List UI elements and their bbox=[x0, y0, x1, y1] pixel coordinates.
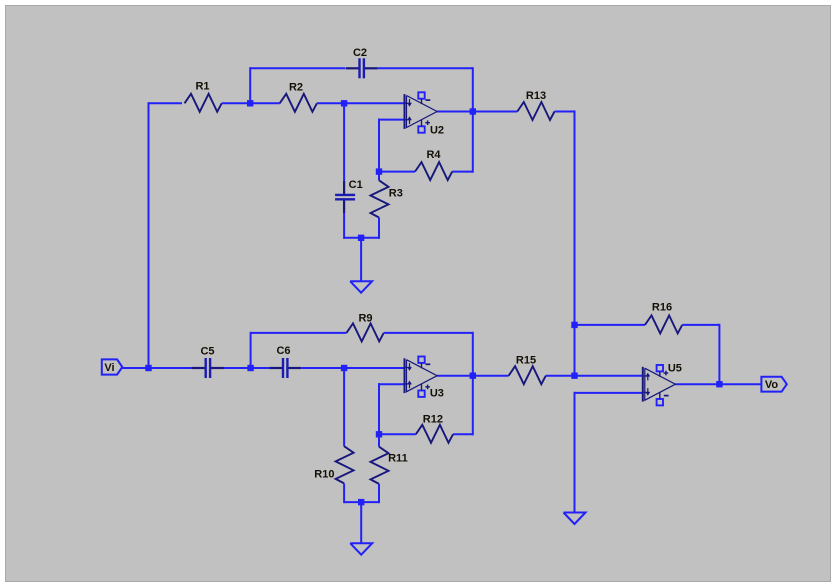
svg-text:R16: R16 bbox=[652, 302, 672, 314]
resistor R13 bbox=[517, 90, 554, 120]
wire node L to U5 input bar bbox=[575, 375, 643, 377]
node B bbox=[247, 100, 253, 106]
wire U2 output to node C bbox=[437, 111, 473, 113]
svg-text:C6: C6 bbox=[276, 345, 290, 357]
wire R16 vertical down to node M bbox=[718, 324, 720, 384]
op-amp U3 bbox=[405, 357, 444, 400]
wire node J down to R12 corner bbox=[472, 376, 474, 436]
svg-text:R10: R10 bbox=[314, 468, 334, 480]
wire bottom R10-R11 bbox=[344, 501, 379, 503]
node M (U5 output) bbox=[716, 381, 722, 387]
resistor R9 bbox=[347, 313, 384, 342]
resistor R15 bbox=[509, 354, 546, 384]
wire U3 output to node J bbox=[437, 375, 473, 377]
wire R13 vertical down to node K bbox=[574, 110, 576, 325]
wire left vertical node A up bbox=[149, 102, 183, 368]
svg-text:U2: U2 bbox=[430, 125, 444, 137]
svg-text:U5: U5 bbox=[668, 362, 682, 374]
node R3/R4 junction bbox=[376, 168, 382, 174]
resistor R2 bbox=[280, 81, 317, 111]
svg-text:U3: U3 bbox=[430, 388, 444, 400]
wire U5 ground branch bbox=[574, 392, 576, 513]
wire C5 to node E bbox=[224, 367, 251, 369]
node C1/R3 ground junction bbox=[358, 235, 364, 241]
node A bbox=[145, 365, 151, 371]
resistor R4 bbox=[380, 149, 473, 180]
svg-text:R9: R9 bbox=[358, 313, 372, 325]
wire node C down to R4 corner bbox=[472, 112, 474, 173]
svg-text:C2: C2 bbox=[353, 47, 367, 59]
resistor R16 bbox=[645, 302, 682, 334]
wire node K to node L bbox=[574, 325, 576, 376]
node R11/R12 junction bbox=[376, 431, 382, 437]
wire node J to R15 bbox=[473, 375, 509, 377]
ground under U5 bbox=[564, 511, 586, 524]
wire U2 inverting input bbox=[379, 119, 405, 172]
resistor R12 bbox=[379, 414, 473, 443]
wire U5 lower input bbox=[575, 392, 643, 394]
wire node A to C5 bbox=[149, 367, 193, 369]
node C (U2 output) bbox=[470, 108, 476, 114]
ground under R10/R11 bbox=[350, 502, 372, 555]
wire R9 vertical down to node J bbox=[472, 332, 474, 376]
wire node F down to R10 bbox=[343, 368, 345, 446]
wire U5 output to node M bbox=[675, 383, 719, 385]
svg-text:R4: R4 bbox=[426, 149, 441, 161]
svg-text:R15: R15 bbox=[516, 354, 536, 366]
wire R2 to U2 input bar bbox=[317, 102, 405, 104]
wire R16 to right corner bbox=[682, 324, 719, 326]
node D bbox=[341, 100, 347, 106]
svg-text:R12: R12 bbox=[423, 414, 443, 426]
wire node E up to R9 bbox=[251, 332, 347, 368]
node L (R15/U5 input) bbox=[571, 373, 577, 379]
capacitor C6 bbox=[269, 345, 301, 378]
svg-text:R11: R11 bbox=[388, 453, 408, 465]
wire C2 to right corner bbox=[378, 67, 473, 69]
svg-text:R2: R2 bbox=[289, 81, 303, 93]
wire R1 to node B bbox=[222, 102, 280, 104]
op-amp U2 bbox=[405, 92, 445, 136]
wire R9 to right corner bbox=[384, 332, 473, 334]
wire node C to R13 bbox=[473, 111, 518, 113]
resistor R3 bbox=[361, 172, 403, 239]
wire node E to C6 bbox=[251, 367, 270, 369]
wire node K to R16 bbox=[575, 324, 646, 326]
port Vi bbox=[102, 359, 123, 374]
node E bbox=[247, 365, 253, 371]
wire C1 down to bottom bbox=[344, 213, 361, 239]
op-amp U5 bbox=[643, 362, 682, 405]
node J (U3 output) bbox=[470, 373, 476, 379]
node F bbox=[341, 365, 347, 371]
node K (R16 tap) bbox=[571, 322, 577, 328]
port Vo bbox=[761, 377, 786, 392]
wire R13 to corner bbox=[555, 111, 575, 113]
wire node B up to C2 line bbox=[250, 67, 345, 103]
capacitor C1 bbox=[335, 179, 363, 213]
ground under C1/R3 bbox=[350, 238, 372, 293]
wire right vertical C2 corner to node C bbox=[472, 67, 474, 111]
capacitor C5 bbox=[192, 345, 224, 378]
wire node D down to C1 bbox=[343, 103, 345, 181]
svg-text:R13: R13 bbox=[526, 90, 546, 102]
resistor R10 bbox=[314, 446, 353, 503]
wire R15 to node L bbox=[546, 375, 575, 377]
resistor R11 bbox=[371, 434, 408, 503]
capacitor C2 bbox=[346, 47, 378, 78]
svg-text:R3: R3 bbox=[389, 187, 403, 199]
svg-text:Vo: Vo bbox=[765, 379, 779, 391]
svg-text:C5: C5 bbox=[200, 345, 214, 357]
wire U3 inverting input bbox=[379, 383, 405, 434]
svg-text:C1: C1 bbox=[349, 179, 363, 191]
wire Vi to node A bbox=[122, 367, 149, 369]
resistor R1 bbox=[185, 81, 222, 112]
wire node M to Vo port bbox=[719, 383, 761, 385]
wire C6 to node F bbox=[301, 367, 344, 369]
node R10/R11 ground junction bbox=[358, 499, 364, 505]
wire node F to U3 input bar bbox=[344, 367, 404, 369]
svg-text:R1: R1 bbox=[195, 81, 209, 93]
svg-text:Vi: Vi bbox=[104, 362, 114, 374]
